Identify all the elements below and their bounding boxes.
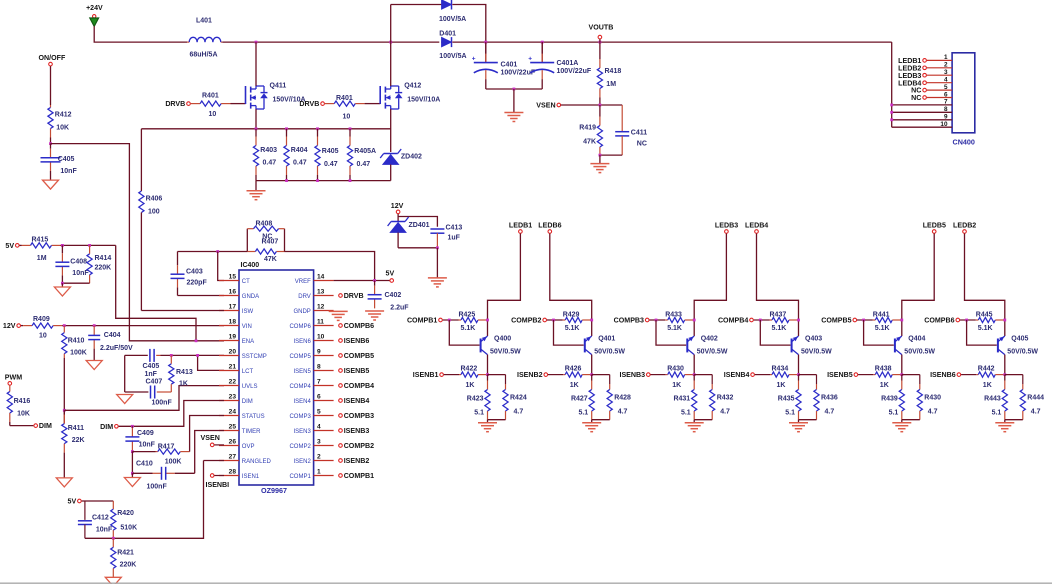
svg-text:C410: C410: [136, 461, 153, 468]
svg-text:C403: C403: [186, 269, 203, 276]
svg-text:10: 10: [209, 111, 217, 118]
resistor R418: [597, 42, 621, 105]
svg-text:COMPB2: COMPB2: [511, 317, 541, 325]
ground R411: [56, 478, 72, 487]
transistor Q405: [998, 336, 1039, 356]
pin 10 ISEN6: [293, 334, 333, 345]
svg-text:10nF: 10nF: [72, 270, 89, 277]
svg-text:R438: R438: [875, 366, 892, 373]
svg-text:C404: C404: [104, 332, 121, 339]
node COMPB5 ch: [821, 317, 856, 325]
svg-text:14: 14: [317, 274, 325, 281]
svg-text:ISENB3: ISENB3: [619, 371, 645, 379]
junction R413 top: [170, 354, 173, 357]
svg-text:3: 3: [317, 439, 321, 446]
svg-text:5.1: 5.1: [681, 410, 691, 417]
svg-text:DRVB: DRVB: [165, 100, 185, 108]
svg-text:4.7: 4.7: [618, 409, 628, 416]
junction collector: [486, 319, 489, 322]
svg-text:DRVB: DRVB: [344, 292, 364, 300]
svg-text:5V: 5V: [386, 270, 395, 278]
svg-text:CN400: CN400: [953, 138, 975, 147]
svg-text:150V//10A: 150V//10A: [407, 97, 440, 104]
pin 13 DRV: [298, 289, 333, 300]
junction R421 top: [112, 537, 115, 540]
svg-text:C401: C401: [501, 62, 518, 69]
svg-text:4.7: 4.7: [720, 409, 730, 416]
pin 3 COMP2: [289, 439, 333, 450]
junction UVLS: [63, 409, 66, 412]
wire R419 C411 bottom: [600, 154, 622, 156]
svg-text:4: 4: [317, 424, 321, 431]
junction R419 gnd: [599, 154, 602, 157]
node LEDB3 pin 3: [898, 72, 926, 80]
svg-text:5.1: 5.1: [578, 410, 588, 417]
svg-text:ISENB6: ISENB6: [344, 337, 370, 345]
resistor R403: [253, 129, 277, 181]
svg-text:68uH/5A: 68uH/5A: [190, 52, 218, 59]
svg-text:R427: R427: [571, 396, 588, 403]
wire sense top: [141, 128, 390, 130]
resistor R406: [139, 129, 163, 311]
svg-text:COMPB6: COMPB6: [924, 317, 954, 325]
svg-text:R404: R404: [291, 147, 308, 154]
svg-text:19: 19: [229, 334, 237, 341]
resistor R424: [503, 375, 527, 420]
junction emitter: [797, 373, 800, 376]
junction R417: [131, 450, 134, 453]
resistor R404: [284, 129, 308, 181]
svg-text:5.1: 5.1: [474, 410, 484, 417]
wire LEDB1 to collector: [488, 234, 521, 337]
node LEDB2 pin 2: [898, 64, 926, 72]
svg-text:C411: C411: [631, 130, 647, 137]
pin 27 RANGLED: [219, 454, 271, 465]
svg-text:50V/0.5W: 50V/0.5W: [697, 349, 728, 356]
capacitor C405 comp: [125, 349, 161, 378]
ground channel Q402: [685, 423, 704, 432]
junction R412 C405: [49, 142, 52, 145]
transistor Q402: [687, 336, 728, 356]
wire to second resistor: [694, 374, 712, 376]
svg-text:LCT: LCT: [242, 369, 254, 375]
wire to gnd channel: [901, 420, 903, 423]
svg-text:DRVB: DRVB: [299, 100, 319, 108]
inductor L401: [187, 18, 222, 59]
svg-text:RANGLED: RANGLED: [242, 459, 272, 465]
wire R417 to STATUS: [190, 416, 224, 452]
resistor R414: [87, 245, 111, 283]
svg-text:21: 21: [229, 364, 237, 371]
pin 21 LCT: [219, 364, 253, 375]
wire emitter: [591, 355, 593, 375]
resistor R445: [960, 312, 1005, 333]
junction sense top: [285, 127, 288, 130]
resistor R426: [548, 366, 592, 390]
svg-text:R410: R410: [68, 338, 85, 345]
svg-text:Q403: Q403: [805, 336, 822, 343]
svg-text:ON/OFF: ON/OFF: [39, 54, 66, 62]
node ISENBI: [206, 474, 230, 489]
junction R414 top: [88, 244, 91, 247]
wire DIM: [119, 401, 224, 427]
svg-text:R408: R408: [256, 221, 273, 228]
pin 2 ISEN2: [293, 454, 333, 465]
svg-text:100nF: 100nF: [152, 400, 173, 407]
svg-text:Q400: Q400: [494, 336, 511, 343]
pin 11 COMP6: [289, 319, 333, 330]
wire +24V to L401: [94, 26, 187, 42]
wire SSTCMP right: [161, 354, 225, 356]
svg-text:50V/0.5W: 50V/0.5W: [801, 349, 832, 356]
svg-text:3: 3: [944, 69, 948, 76]
resistor R438: [858, 366, 902, 390]
node COMPB2 at IC: [339, 442, 374, 450]
svg-text:5.1K: 5.1K: [461, 325, 476, 332]
svg-text:R444: R444: [1027, 395, 1044, 402]
wire R401b to gate: [365, 103, 381, 105]
wire CN400 pin 10: [892, 121, 952, 128]
svg-text:10nF: 10nF: [96, 527, 113, 534]
connector CN400: [952, 53, 975, 147]
junction C408 gnd: [61, 282, 64, 285]
wire CN400 pin 2: [927, 62, 952, 69]
wire CN400 pin 6: [927, 91, 952, 98]
svg-text:R441: R441: [873, 312, 890, 319]
wire emitter: [693, 355, 695, 375]
svg-text:SSTCMP: SSTCMP: [242, 354, 267, 360]
resistor R409: [21, 316, 64, 340]
resistor R441: [857, 312, 902, 333]
junction Q411 drain: [255, 41, 258, 44]
svg-text:COMPB3: COMPB3: [344, 412, 374, 420]
svg-text:R406: R406: [146, 196, 163, 203]
svg-text:17: 17: [229, 304, 237, 311]
svg-text:OVP: OVP: [242, 444, 255, 450]
svg-text:UVLS: UVLS: [242, 384, 258, 390]
svg-text:COMPB5: COMPB5: [344, 352, 374, 360]
wire ISW: [141, 310, 224, 312]
transistor Q412: [380, 83, 440, 110]
svg-text:5.1: 5.1: [785, 410, 795, 417]
svg-text:100: 100: [148, 209, 160, 216]
wire C401 bottom: [486, 88, 542, 90]
svg-text:R429: R429: [563, 312, 580, 319]
wire to gnd channel: [798, 420, 800, 423]
svg-text:5.1: 5.1: [992, 410, 1002, 417]
node DRVB 3: [339, 292, 364, 300]
wire channel bottom: [799, 419, 817, 421]
svg-text:10K: 10K: [56, 125, 69, 132]
svg-text:+: +: [472, 56, 476, 63]
node 12V: [3, 322, 21, 330]
svg-text:Q412: Q412: [404, 83, 421, 90]
wire boost rail: [222, 41, 439, 43]
svg-text:Q401: Q401: [598, 336, 615, 343]
svg-text:R411: R411: [68, 425, 84, 432]
wire LEDB2 to collector: [965, 234, 1005, 337]
wire LEDB6 to collector: [550, 234, 592, 337]
svg-text:100V/5A: 100V/5A: [439, 53, 466, 60]
svg-text:+: +: [528, 56, 532, 63]
svg-text:R433: R433: [665, 312, 682, 319]
wire emitter: [1004, 355, 1006, 375]
svg-text:+24V: +24V: [86, 5, 103, 12]
svg-text:47K: 47K: [264, 256, 277, 263]
wire Q412 drain: [390, 42, 392, 86]
svg-text:COMPB1: COMPB1: [407, 317, 437, 325]
transistor Q401: [585, 336, 626, 356]
junction collector: [1003, 319, 1006, 322]
svg-text:47K: 47K: [583, 139, 596, 146]
capacitor C403: [171, 252, 208, 296]
svg-text:22K: 22K: [72, 437, 85, 444]
wire channel bottom: [592, 419, 610, 421]
wire to gnd channel: [487, 420, 489, 423]
node COMPB2 ch: [511, 317, 546, 325]
resistor R407: [247, 239, 284, 264]
svg-text:ISENB2: ISENB2: [517, 371, 543, 379]
junction base tap: [552, 319, 555, 322]
svg-text:1K: 1K: [777, 382, 786, 389]
svg-text:50V/0.5W: 50V/0.5W: [1007, 349, 1038, 356]
wire base: [967, 320, 997, 345]
pin 18 VIN: [219, 319, 252, 330]
resistor R432: [710, 375, 734, 420]
svg-text:COMPB5: COMPB5: [821, 317, 851, 325]
pin 14 VREF: [295, 274, 334, 285]
junction collector: [693, 319, 696, 322]
svg-text:4.7: 4.7: [1031, 409, 1041, 416]
wire R415 to ENA: [116, 245, 196, 340]
svg-text:1K: 1K: [570, 382, 579, 389]
pin 20 SSTCMP: [219, 349, 267, 360]
svg-text:R414: R414: [95, 255, 112, 262]
junction C409 top: [131, 425, 134, 428]
junction base tap: [759, 319, 762, 322]
wire CN400 pin 3: [927, 69, 952, 76]
svg-text:DIM: DIM: [39, 422, 52, 430]
capacitor C405 onoff: [41, 144, 78, 176]
svg-text:C413: C413: [446, 225, 463, 232]
junction sense bottom: [316, 179, 319, 182]
svg-text:28: 28: [229, 469, 237, 476]
svg-text:ISEN2: ISEN2: [293, 459, 311, 465]
junction emitter: [900, 373, 903, 376]
svg-text:2.2uF: 2.2uF: [390, 305, 409, 312]
svg-text:ISENB2: ISENB2: [344, 457, 370, 465]
junction sense top: [255, 127, 258, 130]
wire CT node: [178, 251, 248, 253]
wire LEDB3 to collector: [694, 234, 726, 337]
resistor R425: [443, 312, 488, 333]
svg-text:1: 1: [944, 54, 948, 61]
resistor R429: [547, 312, 592, 333]
node ISENB3 ch: [619, 371, 650, 379]
wire ISEN1: [214, 475, 224, 477]
pin 7 COMP4: [289, 379, 333, 390]
resistor R423: [467, 375, 490, 420]
transistor Q400: [481, 336, 522, 356]
svg-text:R405: R405: [322, 148, 339, 155]
svg-text:15: 15: [229, 274, 237, 281]
svg-text:ENA: ENA: [242, 339, 254, 345]
ground sense resistors: [247, 191, 266, 200]
resistor R430: [651, 366, 695, 390]
wire ON/OFF down: [50, 66, 52, 105]
svg-text:COMPB6: COMPB6: [344, 322, 374, 330]
svg-text:510K: 510K: [120, 525, 137, 532]
svg-text:Q404: Q404: [908, 336, 925, 343]
node ISENB1 ch: [413, 371, 444, 379]
wire RANGLED down: [113, 461, 203, 539]
svg-text:COMPB4: COMPB4: [718, 317, 748, 325]
svg-text:ISENBI: ISENBI: [206, 481, 230, 489]
node NC pin 5: [911, 87, 926, 95]
svg-text:ISW: ISW: [242, 309, 254, 315]
wire to gnd channel: [591, 420, 593, 423]
svg-text:24: 24: [229, 409, 237, 416]
svg-text:23: 23: [229, 394, 237, 401]
wire VIN: [64, 325, 224, 327]
resistor R401 a: [191, 93, 231, 119]
svg-text:4.7: 4.7: [825, 409, 835, 416]
node DIM a: [34, 422, 52, 430]
capacitor C413: [430, 225, 462, 248]
pin 19 ENA: [219, 334, 254, 345]
resistor R410: [62, 326, 87, 358]
svg-text:100K: 100K: [165, 459, 182, 466]
svg-text:0.47: 0.47: [324, 161, 338, 168]
junction CN400 feed: [890, 111, 893, 114]
capacitor C411: [615, 105, 647, 155]
svg-text:ISENB4: ISENB4: [724, 371, 750, 379]
node COMPB4 ch: [718, 317, 753, 325]
node 5V a: [5, 242, 19, 250]
node ISENB6 ch: [930, 371, 961, 379]
svg-text:ISENB3: ISENB3: [344, 427, 370, 435]
capacitor C407: [125, 379, 173, 407]
pin 28 ISEN1: [219, 469, 260, 480]
wire channel bottom: [488, 419, 506, 421]
svg-text:ISENB5: ISENB5: [827, 371, 853, 379]
svg-text:1K: 1K: [983, 382, 992, 389]
svg-text:VOUTB: VOUTB: [589, 24, 614, 32]
svg-text:ISENB5: ISENB5: [344, 367, 370, 375]
node LEDB1 pin 1: [898, 57, 926, 65]
wire to second resistor: [1005, 374, 1023, 376]
svg-text:Q402: Q402: [701, 336, 718, 343]
svg-text:R430: R430: [667, 366, 684, 373]
capacitor C412: [78, 501, 113, 538]
capacitor C402: [368, 281, 410, 312]
wire R417 net: [131, 452, 133, 474]
svg-text:5: 5: [944, 84, 948, 91]
wire base: [656, 320, 686, 345]
wire ENA node: [51, 144, 225, 341]
svg-text:5.1K: 5.1K: [875, 325, 890, 332]
resistor R411: [62, 410, 85, 478]
svg-text:10nF: 10nF: [60, 168, 77, 175]
svg-text:DRV: DRV: [298, 294, 311, 300]
pin 15 CT: [219, 274, 250, 285]
wire to second resistor: [488, 374, 506, 376]
junction R410 top: [63, 324, 66, 327]
pin 6 ISEN4: [293, 394, 333, 405]
svg-text:COMP3: COMP3: [289, 414, 311, 420]
svg-text:STATUS: STATUS: [242, 414, 265, 420]
node ISENB4 at IC: [339, 397, 370, 405]
resistor R422: [444, 366, 488, 390]
svg-text:R419: R419: [579, 125, 596, 132]
wire channel bottom: [902, 419, 920, 421]
svg-text:10: 10: [317, 334, 325, 341]
wire sense bottom: [256, 180, 391, 182]
diode D400 100V/5A: [439, 0, 466, 23]
wire R415 node: [62, 244, 115, 246]
capacitor C408: [55, 245, 89, 283]
svg-text:22: 22: [229, 379, 237, 386]
ground C409 C410: [124, 478, 140, 487]
node COMPB6 ch: [924, 317, 959, 325]
svg-text:NC: NC: [911, 94, 921, 102]
svg-text:2: 2: [317, 454, 321, 461]
transistor Q404: [895, 336, 936, 356]
wire VSEN: [561, 104, 622, 106]
svg-text:8: 8: [317, 364, 321, 371]
pin 5 COMP3: [289, 409, 333, 420]
svg-text:Q411: Q411: [270, 83, 287, 90]
svg-text:18: 18: [229, 319, 237, 326]
svg-text:R423: R423: [467, 396, 484, 403]
svg-text:LEDB5: LEDB5: [923, 222, 946, 230]
junction C401 tap: [484, 41, 487, 44]
ground GNDP: [329, 311, 348, 320]
svg-text:12V: 12V: [391, 202, 404, 210]
pin 17 ISW: [219, 304, 253, 315]
capacitor C410: [132, 461, 194, 491]
svg-text:R436: R436: [821, 395, 838, 402]
svg-text:ISEN4: ISEN4: [293, 399, 311, 405]
pin 1 COMP1: [289, 469, 333, 480]
svg-text:11: 11: [317, 319, 324, 326]
junction C408 top: [61, 244, 64, 247]
wire to second resistor: [592, 374, 610, 376]
wire comp left: [124, 355, 126, 392]
junction sense top: [349, 127, 352, 130]
pin 25 TIMER: [219, 424, 261, 435]
wire CN400 pin 4: [927, 77, 952, 84]
svg-text:R422: R422: [461, 366, 478, 373]
resistor R436: [814, 375, 838, 420]
node COMPB6 at IC: [339, 322, 374, 330]
svg-text:C408: C408: [70, 259, 87, 266]
svg-text:1K: 1K: [672, 382, 681, 389]
svg-text:C409: C409: [137, 430, 154, 437]
svg-text:25: 25: [229, 424, 237, 431]
svg-text:COMP5: COMP5: [289, 354, 311, 360]
wire CN400 pin 7: [892, 99, 952, 106]
junction collector: [590, 319, 593, 322]
svg-text:ISENB4: ISENB4: [344, 397, 370, 405]
wire emitter: [901, 355, 903, 375]
wire base: [760, 320, 790, 345]
wire CN400 pin 9: [892, 114, 952, 121]
svg-text:CT: CT: [242, 279, 250, 285]
wire LCT tie: [198, 355, 224, 370]
svg-text:COMPB2: COMPB2: [344, 442, 374, 450]
node ISENB3 at IC: [339, 427, 370, 435]
